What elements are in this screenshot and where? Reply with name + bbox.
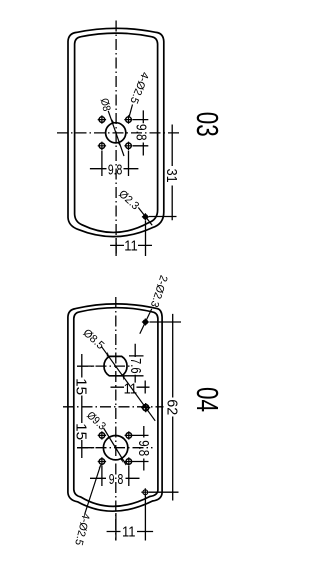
plate 04 small hole bottom-right: [125, 457, 133, 465]
leader line D9.3: [104, 428, 127, 465]
dimension 9.8 bottom lower: dimension line: [90, 477, 140, 479]
plate 04 inner contour: [74, 308, 158, 507]
svg-text:11: 11: [124, 381, 138, 397]
plate 03 center hole circle D8: [106, 123, 126, 143]
svg-text:03: 03: [190, 112, 225, 137]
svg-text:11: 11: [122, 525, 136, 541]
plate 03 outer contour: [68, 28, 164, 236]
dimension 9.8 right: dimension line: [142, 110, 144, 155]
leader line D8.5 long diagonal: [101, 346, 155, 421]
plate 04 mid hole D2.3: [143, 405, 149, 411]
leader arrowheads D8.5: [107, 352, 125, 381]
plate 03 small hole top-right: [124, 115, 132, 123]
svg-text:11: 11: [124, 238, 138, 254]
leader line 4-D2.5: [129, 105, 132, 117]
dimension 31: extension line from hole: [149, 216, 177, 218]
dimension 62: extension lines: [149, 322, 181, 492]
dimension 9.8 bottom lower: extension lines: [102, 466, 129, 486]
dimension 11 bottom: extension lines: [116, 496, 145, 541]
svg-text:9.8: 9.8: [135, 440, 151, 456]
dimension 62: dimension line: [172, 314, 174, 501]
dimension 7.6: tick lines: [109, 356, 143, 376]
leader line 2-D2.3: [140, 309, 152, 334]
plate 04 upper hole D8.5 with flats: [104, 356, 127, 375]
plate 04 bottom corner hole: [141, 488, 149, 496]
leader line D2.3: [138, 208, 152, 226]
plate 04 mid horizontal centerline: [63, 406, 164, 408]
plate 04 top corner hole D2.3 filled: [142, 319, 149, 326]
svg-text:7.6: 7.6: [127, 358, 143, 374]
svg-text:15: 15: [73, 423, 89, 440]
plate 04 small hole bottom-left: [98, 457, 106, 465]
svg-text:15: 15: [73, 378, 89, 395]
plate 04 lower circle horizontal centerline: [77, 447, 153, 449]
dimension 11: dimension line: [110, 244, 152, 246]
svg-text:9.8: 9.8: [132, 124, 148, 141]
svg-text:9.8: 9.8: [108, 163, 123, 179]
plate 03 corner hole D2.3: [142, 213, 149, 220]
plate 04 vertical centerline: [115, 297, 117, 541]
plate 03 horizontal centerline: [57, 132, 180, 134]
leader line D8: [108, 111, 124, 156]
svg-text:9.8: 9.8: [109, 472, 124, 488]
plate 03 vertical centerline: [115, 21, 117, 257]
dimension 9.8 right lower: dimension line: [143, 426, 145, 471]
svg-text:31: 31: [163, 169, 179, 183]
leader arrowhead 4-D2.5 lower: [99, 464, 102, 468]
svg-text:62: 62: [163, 399, 179, 415]
dimension 11 mid: dimension line: [111, 386, 150, 388]
plate 03 small hole bottom-left: [98, 142, 106, 150]
dimension 9.8 bottom: extension lines: [102, 151, 129, 177]
plate 03 inner contour: [75, 33, 158, 232]
plate 04 outer contour: [68, 304, 162, 511]
plate 04 small hole top-left: [98, 431, 106, 439]
dimension 31: dimension line: [171, 125, 173, 221]
dimension 15,15: tick at upper circle: [77, 365, 94, 367]
dimension 9.8 right lower: extension lines: [133, 435, 149, 461]
dimension 15,15: dimension line: [81, 354, 83, 458]
plate 04 small hole top-right: [125, 431, 133, 439]
leader arrowheads D8: [112, 119, 121, 147]
plate 03 small hole top-left: [98, 115, 106, 123]
dimension 15,15: tick at lower circle: [77, 447, 94, 449]
dimension 11 mid: extension line: [144, 381, 146, 394]
leader arrowhead 4-D2.5: [128, 113, 131, 118]
plate 04 lower hole circle D9.3: [103, 436, 127, 460]
dimension 11: extension lines: [116, 221, 145, 257]
leader line 4-D2.5 lower: [85, 466, 101, 514]
plate 04 upper circle horizontal centerline: [77, 365, 131, 367]
dimension 9.8 bottom: dimension line: [90, 168, 138, 170]
plate 03 small hole bottom-right: [124, 142, 132, 150]
dimension 9.8 right: extension lines: [133, 120, 148, 146]
svg-text:04: 04: [190, 387, 225, 412]
dimension 7.6: dimension line: [134, 344, 136, 383]
dimension 11 bottom: dimension line: [107, 531, 154, 533]
